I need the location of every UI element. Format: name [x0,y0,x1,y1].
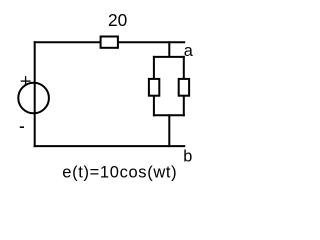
wire parallel bottom rail [153,114,185,116]
svg-text:b: b [183,148,192,166]
wire left branch lower lead [153,96,155,117]
impedance Z1 (left parallel box) [149,79,159,96]
wire bottom (node b rail) [34,145,186,147]
wire junction stub at node a [168,41,170,57]
resistor 20 (series box) [101,37,118,48]
wire top (node a rail) [34,41,186,43]
source V1 (sinusoidal voltage source circle) [18,83,49,114]
svg-text:e(t)=10cos(wt): e(t)=10cos(wt) [62,163,177,181]
wire left branch drop [153,56,155,79]
wire right branch lower lead [183,96,185,117]
svg-text:20: 20 [108,10,127,30]
polarity minus sign [20,126,24,128]
wire center drop to node b [168,114,170,147]
wire parallel top rail [153,56,185,58]
svg-text:a: a [184,42,194,60]
wire right branch drop [183,56,185,79]
polarity plus sign [21,76,31,86]
wire left (source branch) [34,41,36,147]
impedance Z2 (right parallel box) [179,79,189,96]
